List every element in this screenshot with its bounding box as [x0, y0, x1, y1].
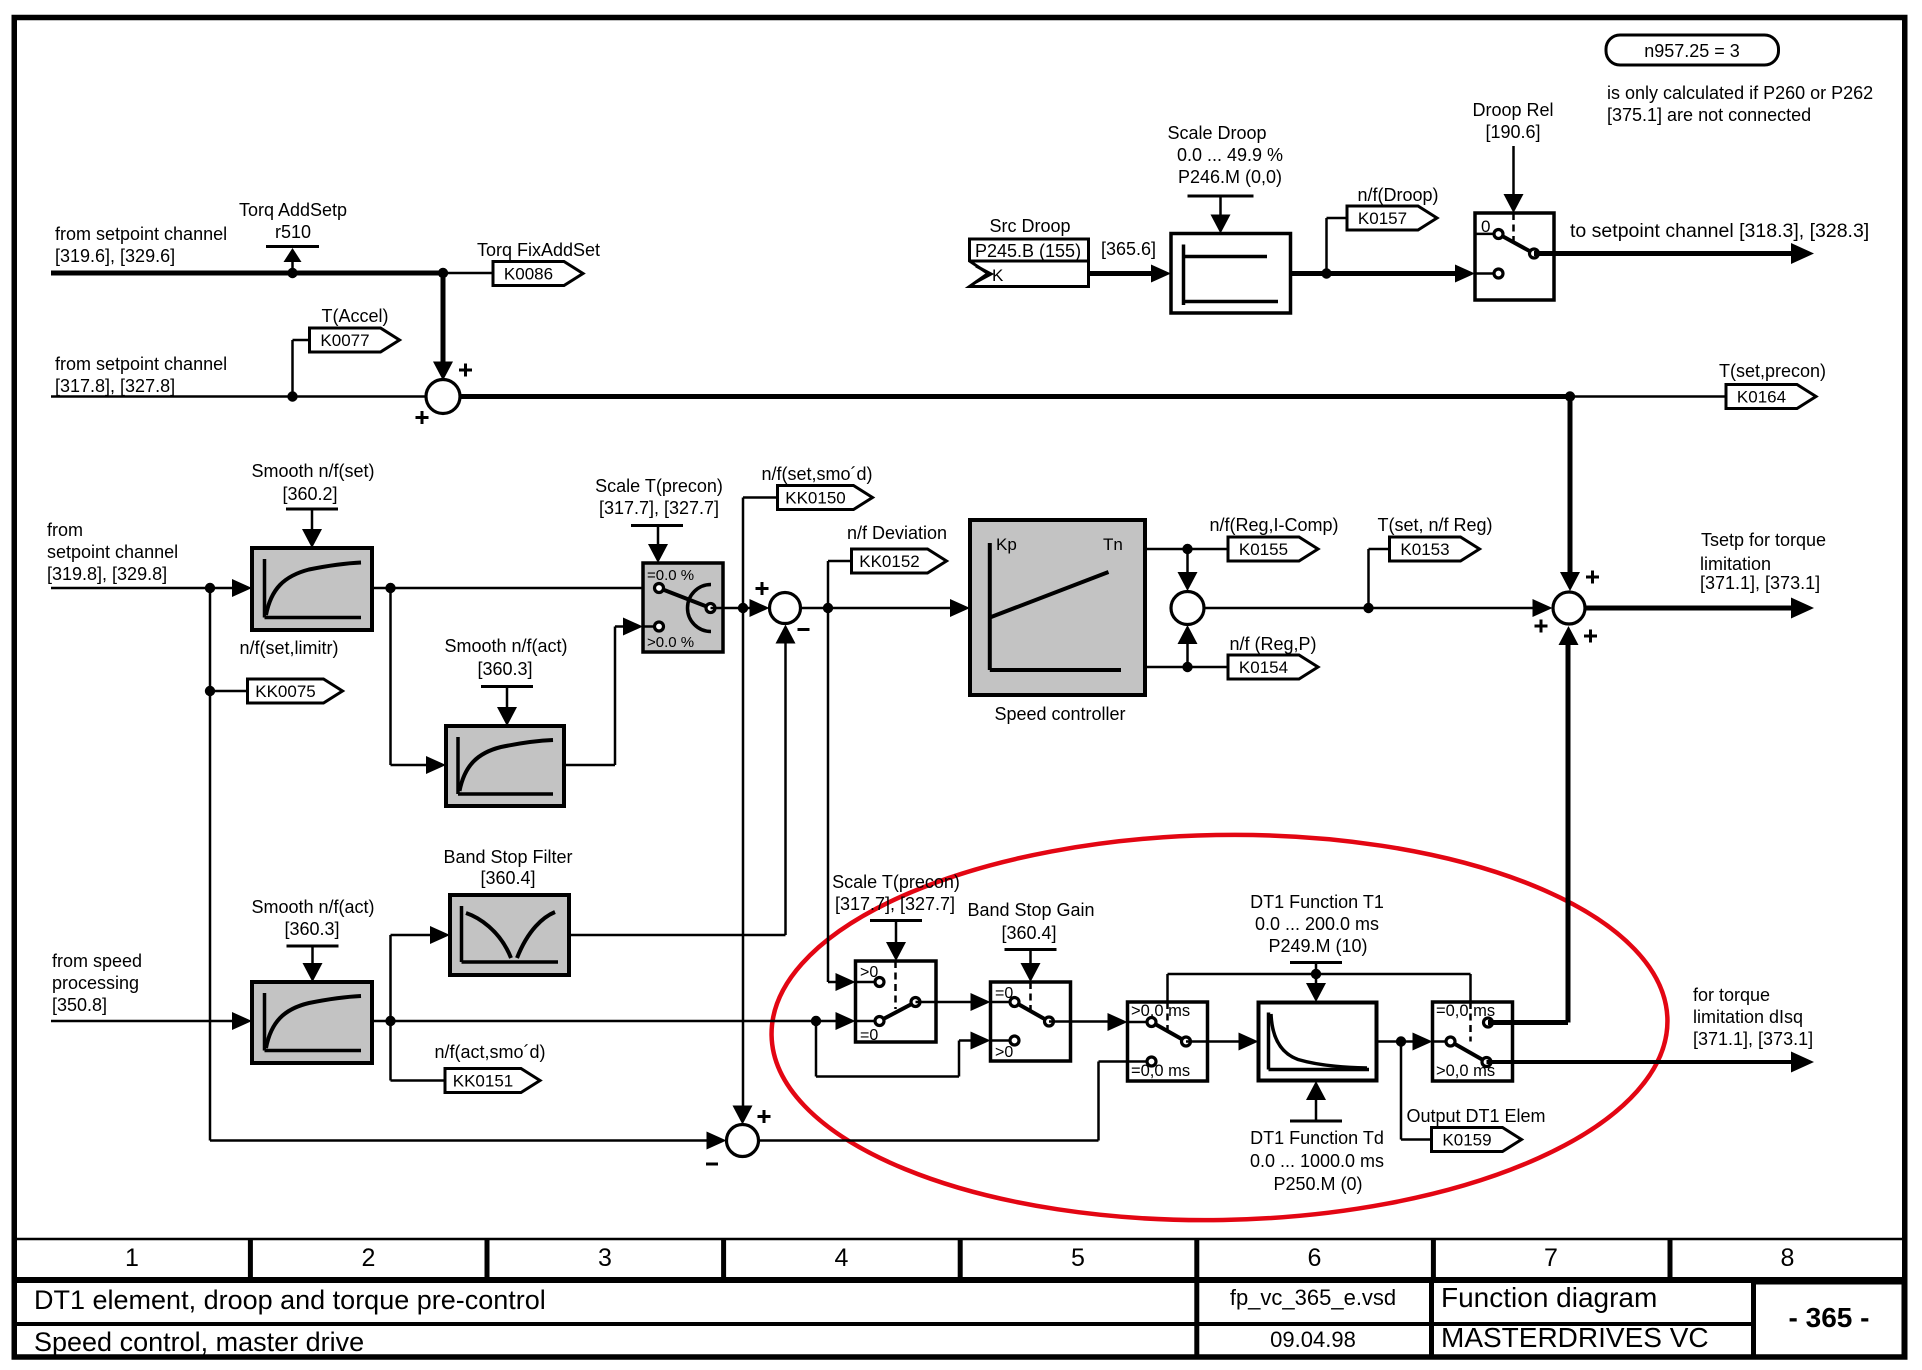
svg-text:P250.M (0): P250.M (0) [1273, 1174, 1362, 1194]
switch4 dashed control line [1469, 1002, 1472, 1042]
gray switch contact stub [643, 625, 659, 628]
wire S4 output Tsetp (thick) [1585, 606, 1796, 611]
svg-text:K: K [992, 266, 1004, 285]
svg-text:MASTERDRIVES VC: MASTERDRIVES VC [1441, 1322, 1709, 1353]
svg-text:KK0075: KK0075 [255, 682, 316, 701]
svg-text:3: 3 [598, 1244, 612, 1272]
svg-text:n/f(set,limitr): n/f(set,limitr) [240, 638, 339, 658]
P249 T-bar [1290, 961, 1342, 964]
svg-text:from setpoint channel: from setpoint channel [55, 224, 227, 244]
svg-text:8: 8 [1781, 1244, 1795, 1272]
junction dot K0159 tap [1396, 1036, 1406, 1046]
Scale T(precon) T-bar arrow [631, 524, 683, 527]
switch3 dashed control line [1166, 1002, 1169, 1033]
svg-text:[371.1], [373.1]: [371.1], [373.1] [1700, 573, 1820, 593]
wire S5 output to DT1 path [759, 1139, 1099, 1142]
connector KK0151 [445, 1069, 540, 1093]
connector K0086 [493, 262, 583, 286]
droop characteristic block [1171, 234, 1291, 314]
svg-text:n/f Deviation: n/f Deviation [847, 523, 947, 543]
page number box - 365 - [1754, 1282, 1905, 1357]
svg-text:n/f(act,smo´d): n/f(act,smo´d) [434, 1042, 545, 1062]
connector KK0075 [248, 679, 343, 703]
Band Stop Gain T-bar arrow [1005, 948, 1057, 951]
svg-text:Function diagram: Function diagram [1441, 1282, 1657, 1313]
wire to K0086 connector [443, 272, 493, 275]
switch box Scale T(precon) (DT1) [856, 961, 937, 1042]
svg-text:>0.0 %: >0.0 % [647, 634, 694, 651]
wire P249 control line to switches [1315, 963, 1318, 975]
wire droop switch output to setpoint channel (thick) [1534, 251, 1796, 256]
svg-text:[360.4]: [360.4] [480, 868, 535, 888]
Scale Droop T-bar and arrow [1188, 195, 1254, 198]
smoothing block Smooth n/f(act) [360.3] (middle) [446, 726, 564, 806]
svg-text:[371.1], [373.1]: [371.1], [373.1] [1693, 1029, 1813, 1049]
svg-text:=0.0 %: =0.0 % [647, 567, 694, 584]
switch2 contact stubs [991, 1001, 1015, 1004]
svg-text:1: 1 [125, 1244, 139, 1272]
footer column divider 5 [1194, 1239, 1199, 1280]
junction dot K0077 tap [287, 391, 297, 401]
summing junction S5 (actual minus set) [727, 1125, 759, 1157]
wire down into S3 [1186, 549, 1189, 573]
wire switch3 output into DT1 block [1186, 1040, 1243, 1043]
svg-text:n/f(set,smo´d): n/f(set,smo´d) [761, 464, 872, 484]
junction dot K0153 tap [1363, 603, 1373, 613]
svg-text:KK0152: KK0152 [859, 552, 920, 571]
svg-text:DT1 Function Td: DT1 Function Td [1250, 1128, 1384, 1148]
switch1 dashed control line [894, 961, 897, 1009]
gray switchover block Scale T(precon) [643, 563, 723, 652]
wire from setpoint channel (y=396) [51, 395, 427, 398]
plus sign at S1 left input [416, 416, 429, 419]
junction dot K0155 [1182, 544, 1192, 554]
wire Droop Rel parameter arrow [1512, 146, 1515, 196]
svg-text:K0159: K0159 [1442, 1131, 1491, 1150]
svg-text:Scale T(precon): Scale T(precon) [832, 872, 960, 892]
wire S2 output to speed controller [801, 607, 953, 610]
footer column divider 4 [958, 1239, 963, 1280]
svg-text:K0153: K0153 [1400, 540, 1449, 559]
Smooth n/f(act) lower T-bar arrow [287, 945, 339, 948]
wire KK0150 tap [742, 498, 745, 609]
svg-text:0.0 ... 200.0 ms: 0.0 ... 200.0 ms [1255, 914, 1379, 934]
droop switch dashed control line [1512, 213, 1515, 242]
connector K0155 [1228, 537, 1318, 561]
summing junction S2 (n/f deviation) [770, 593, 801, 624]
svg-text:T(Accel): T(Accel) [322, 306, 389, 326]
svg-text:[190.6]: [190.6] [1485, 122, 1540, 142]
svg-text:Speed controller: Speed controller [994, 704, 1125, 724]
svg-text:K0077: K0077 [320, 331, 369, 350]
gray switch smooth-transition arc [687, 585, 711, 632]
plus sign at S4 top input [1586, 576, 1599, 579]
svg-text:Kp: Kp [996, 535, 1017, 554]
r510 tap arrow up [291, 262, 294, 273]
svg-text:=0,0 ms: =0,0 ms [1131, 1062, 1190, 1080]
plus sign at S4 left input [1535, 625, 1548, 628]
footer table thick line under number row [14, 1277, 1905, 1283]
svg-text:Smooth n/f(act): Smooth n/f(act) [444, 636, 567, 656]
wire KK0151 tap [389, 1021, 392, 1081]
wire K0159 tap [1400, 1042, 1403, 1140]
svg-text:Output DT1 Elem: Output DT1 Elem [1406, 1106, 1545, 1126]
red highlight ellipse around DT1 element [768, 827, 1671, 1228]
svg-text:Scale Droop: Scale Droop [1167, 123, 1266, 143]
svg-text:P246.M (0,0): P246.M (0,0) [1178, 167, 1282, 187]
svg-text:[317.7], [327.7]: [317.7], [327.7] [599, 498, 719, 518]
svg-text:limitation: limitation [1700, 554, 1771, 574]
wire smoothed actual value main line [372, 1020, 840, 1023]
wire speed controller upper output [1145, 548, 1228, 551]
svg-text:[317.8], [327.8]: [317.8], [327.8] [55, 376, 175, 396]
minus sign at S2 bottom input [798, 628, 810, 631]
svg-text:limitation dIsq: limitation dIsq [1693, 1007, 1803, 1027]
svg-text:5: 5 [1071, 1244, 1085, 1272]
svg-text:[319.6], [329.6]: [319.6], [329.6] [55, 246, 175, 266]
footer column divider 6 [1431, 1239, 1436, 1280]
wire S3 output to S4 [1204, 607, 1535, 610]
svg-text:[360.4]: [360.4] [1001, 923, 1056, 943]
svg-text:from setpoint channel: from setpoint channel [55, 354, 227, 374]
wire down to actual-value summing junction S5 [209, 691, 212, 1141]
svg-text:Tn: Tn [1103, 535, 1123, 554]
P250 T-bar and arrow up into DT1 block [1290, 1120, 1342, 1123]
wire switch2 output to T1 smoothing switch [1049, 1020, 1112, 1023]
minus sign at S5 left input [706, 1163, 718, 1166]
svg-text:P245.B (155): P245.B (155) [975, 241, 1081, 261]
wire KK0075 tap [209, 588, 212, 691]
svg-text:K0164: K0164 [1737, 388, 1786, 407]
junction dot at r510 tap [287, 268, 297, 278]
switch box T1 smoothing (right) [1433, 1002, 1513, 1081]
connector K0153 [1390, 537, 1480, 561]
wire thick down into summing junction S1 [441, 273, 446, 375]
svg-text:K0154: K0154 [1239, 658, 1288, 677]
wire speed controller lower output [1145, 666, 1228, 669]
svg-text:to setpoint channel [318.3], [: to setpoint channel [318.3], [328.3] [1570, 220, 1869, 242]
parameter source box P245.B (155) / K [970, 239, 1089, 287]
connector K0159 [1432, 1128, 1522, 1152]
connector K0164 [1726, 385, 1816, 409]
svg-text:Band Stop Gain: Band Stop Gain [967, 900, 1094, 920]
svg-text:0.0 ... 49.9 %: 0.0 ... 49.9 % [1177, 145, 1283, 165]
band stop filter block [450, 895, 569, 975]
svg-text:Speed control, master drive: Speed control, master drive [34, 1327, 364, 1357]
wire set-smoothed down to S5 plus input [742, 608, 745, 1110]
svg-text:7: 7 [1544, 1244, 1558, 1272]
wire input from speed processing [51, 1020, 236, 1023]
wire mid smooth branch down [389, 588, 392, 765]
switch3 contact stubs [1128, 1021, 1152, 1024]
summing junction S3 [1171, 592, 1204, 625]
connector K0077 [310, 328, 400, 352]
svg-text:K0086: K0086 [504, 265, 553, 284]
switch1 arm and contacts [880, 1002, 916, 1021]
svg-text:DT1 element, droop and torque: DT1 element, droop and torque pre-contro… [34, 1285, 546, 1315]
wire mid smooth output to gray switch lower input [564, 764, 615, 767]
switch2 dashed control line [1029, 982, 1032, 1013]
Smooth n/f(act) mid T-bar arrow [481, 685, 533, 688]
Scale T(precon) DT1 T-bar arrow [870, 919, 922, 922]
switch2 arm and contacts [1015, 1002, 1050, 1022]
Smooth n/f(set) T-bar arrow [286, 508, 338, 511]
svg-text:n/f (Reg,P): n/f (Reg,P) [1229, 634, 1316, 654]
plus sign at S4 bottom input [1584, 635, 1597, 638]
droop switch contacts and arm [1499, 234, 1535, 254]
svg-text:09.04.98: 09.04.98 [1270, 1327, 1356, 1352]
junction dot KK0150 tap [738, 603, 748, 613]
svg-text:K0155: K0155 [1239, 540, 1288, 559]
svg-text:n/f(Droop): n/f(Droop) [1357, 185, 1438, 205]
svg-text:Scale T(precon): Scale T(precon) [595, 476, 723, 496]
junction dot T(set,precon) branch [1565, 391, 1575, 401]
svg-text:Smooth n/f(act): Smooth n/f(act) [251, 897, 374, 917]
wire to K0164 [1570, 395, 1726, 398]
svg-text:for torque: for torque [1693, 985, 1770, 1005]
svg-text:n957.25 = 3: n957.25 = 3 [1644, 41, 1740, 61]
footer column divider 1 [248, 1239, 253, 1280]
wire switch4 lower output for torque limitation dIsq [1487, 1060, 1797, 1064]
svg-text:Smooth n/f(set): Smooth n/f(set) [251, 461, 374, 481]
wire gray switch output to deviation junction S2 [711, 607, 754, 610]
junction dot K0154 [1182, 662, 1192, 672]
switch box Band Stop Gain [991, 982, 1071, 1061]
plus sign at S2 left input [756, 587, 769, 590]
connector K0157 [1347, 206, 1437, 230]
wire droop block to switch (thick) [1291, 271, 1458, 276]
wire band stop filter output [569, 934, 786, 937]
smoothing block Smooth n/f(set) [360.2] [252, 548, 372, 630]
gray switch arm and contacts [659, 588, 711, 608]
wire Smooth n/f(set) output to switch [372, 587, 643, 590]
svg-text:Src Droop: Src Droop [989, 216, 1070, 236]
wire P245 to droop block (thick) [1089, 271, 1154, 276]
svg-text:[375.1] are not connected: [375.1] are not connected [1607, 105, 1811, 125]
svg-text:Torq AddSetp: Torq AddSetp [239, 200, 347, 220]
smoothing block Smooth n/f(act) [360.3] (lower) [252, 982, 372, 1063]
svg-text:processing: processing [52, 973, 139, 993]
wire switch4 top output line to S4 (thick) [1488, 1020, 1513, 1025]
svg-text:4: 4 [835, 1244, 849, 1272]
footer vertical divider at x=1196 [1194, 1280, 1199, 1357]
svg-text:>0,0 ms: >0,0 ms [1131, 1002, 1190, 1020]
junction dot main setpoint branch [205, 583, 215, 593]
footer column divider 2 [485, 1239, 490, 1280]
wire DT1 branch up into S4 bottom (thick) [1513, 1020, 1569, 1025]
switch4 arm and contacts [1451, 1042, 1487, 1063]
svg-text:DT1 Function T1: DT1 Function T1 [1250, 892, 1384, 912]
r510 monitor tap underline [266, 245, 319, 248]
svg-text:=0: =0 [860, 1027, 878, 1044]
svg-text:Band Stop Filter: Band Stop Filter [443, 847, 572, 867]
wire up into band stop filter [389, 935, 392, 1021]
junction dot at K0086 branch [438, 268, 448, 278]
wire T(set,precon) down into S4 (thick) [1568, 397, 1573, 575]
wire KK0152 tap [827, 561, 830, 608]
svg-text:>0: >0 [995, 1044, 1013, 1061]
wire switch1 output to band stop gain switch [916, 1001, 975, 1004]
switch3 arm and contacts [1152, 1022, 1187, 1042]
svg-text:T(set, n/f Reg): T(set, n/f Reg) [1377, 515, 1492, 535]
junction dot KK0075 [205, 686, 215, 696]
wire DT1 output to final switch [1377, 1040, 1417, 1043]
droop switch contact stub [1475, 272, 1499, 275]
plus sign at S1 top input [459, 369, 472, 372]
svg-text:Torq FixAddSet: Torq FixAddSet [477, 240, 600, 260]
rounded box n957.25 = 3 [1606, 35, 1779, 65]
wire K0153 tap [1367, 549, 1370, 608]
summing junction S4 [1553, 592, 1585, 624]
svg-text:Tsetp for torque: Tsetp for torque [1701, 530, 1826, 550]
svg-text:[317.7], [327.7]: [317.7], [327.7] [835, 894, 955, 914]
speed controller block [970, 520, 1145, 695]
svg-text:[365.6]: [365.6] [1101, 239, 1156, 259]
svg-text:0.0 ... 1000.0 ms: 0.0 ... 1000.0 ms [1250, 1151, 1384, 1171]
junction dot P249 [1311, 969, 1321, 979]
droop relief switch box [1475, 213, 1554, 300]
svg-text:6: 6 [1308, 1244, 1322, 1272]
svg-text:[360.3]: [360.3] [477, 659, 532, 679]
footer column divider 7 [1668, 1239, 1673, 1280]
footer row divider between title rows [14, 1322, 1754, 1326]
connector KK0152 [852, 549, 947, 573]
wire K0157 tap [1325, 218, 1328, 274]
svg-text:setpoint channel: setpoint channel [47, 542, 178, 562]
switch1 contact stubs [856, 981, 880, 984]
svg-text:[350.8]: [350.8] [52, 995, 107, 1015]
junction dot DT1 input branch [811, 1016, 821, 1026]
DT1 block with decay curve [1259, 1003, 1377, 1081]
svg-text:is only calculated if P260 or: is only calculated if P260 or P262 [1607, 83, 1873, 103]
svg-text:P249.M (10): P249.M (10) [1268, 936, 1367, 956]
wire up into S3 [1186, 643, 1189, 667]
svg-text:K0157: K0157 [1358, 209, 1407, 228]
svg-text:T(set,precon): T(set,precon) [1719, 361, 1826, 381]
plus sign at S5 top input [758, 1115, 771, 1118]
footer vertical divider at x=1431 [1429, 1280, 1434, 1357]
wire input to Smooth n/f(set) [51, 587, 236, 590]
wire P249 arrow into DT1 block [1315, 974, 1318, 988]
svg-text:[319.8], [329.8]: [319.8], [329.8] [47, 564, 167, 584]
wire K0077 to line [293, 339, 310, 342]
junction dot K0157 tap [1321, 268, 1331, 278]
wire S1 output T(set,precon) (thick, y=396.5) [460, 394, 1570, 399]
svg-text:Droop Rel: Droop Rel [1472, 100, 1553, 120]
svg-text:from speed: from speed [52, 951, 142, 971]
svg-text:n/f(Reg,I-Comp): n/f(Reg,I-Comp) [1209, 515, 1338, 535]
svg-text:KK0151: KK0151 [453, 1072, 514, 1091]
wire from setpoint channel (thick, y=273) [51, 271, 443, 276]
junction dot KK0152 tap [823, 603, 833, 613]
svg-text:2: 2 [362, 1244, 376, 1272]
wire deviation down to DT1 scale switch [827, 608, 830, 982]
svg-text:[360.2]: [360.2] [282, 484, 337, 504]
switch box T1 smoothing (left) [1128, 1002, 1208, 1081]
svg-text:- 365 -: - 365 - [1789, 1302, 1870, 1333]
junction dot band-stop branch [385, 1016, 395, 1026]
footer table top line [14, 1238, 1905, 1241]
connector K0154 [1228, 655, 1318, 679]
switch4 contact stubs [1433, 1040, 1451, 1043]
svg-text:fp_vc_365_e.vsd: fp_vc_365_e.vsd [1230, 1285, 1396, 1310]
wire branch to band stop gain switch lower input [815, 1021, 818, 1077]
connector KK0150 [778, 486, 873, 510]
junction dot smooth set output [385, 583, 395, 593]
wire band stop output up into S2 minus input [784, 639, 787, 935]
svg-text:[360.3]: [360.3] [284, 919, 339, 939]
svg-text:KK0150: KK0150 [785, 489, 846, 508]
svg-text:r510: r510 [275, 222, 311, 242]
svg-text:from: from [47, 520, 83, 540]
summing junction S1 [426, 380, 460, 414]
footer column divider 3 [721, 1239, 726, 1280]
